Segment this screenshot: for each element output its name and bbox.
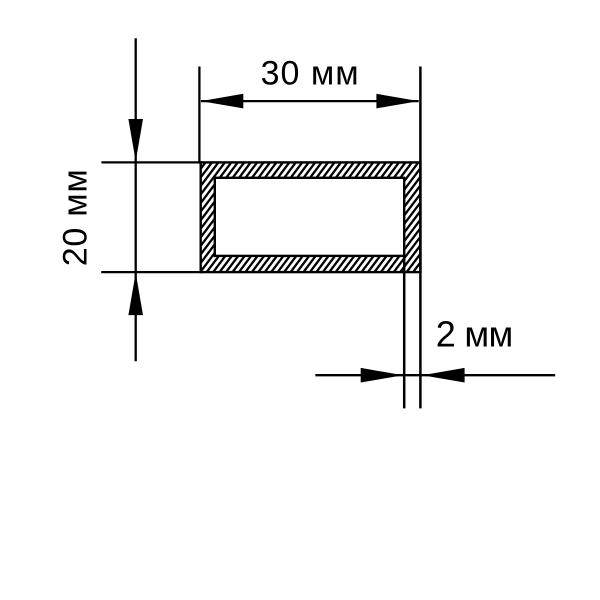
wire top dimension line 30mm bbox=[201, 100, 419, 102]
wire 2mm dimension line bbox=[315, 374, 555, 376]
svg-text:2 мм: 2 мм bbox=[436, 313, 514, 354]
node outer profile rectangle bbox=[201, 162, 421, 272]
wire extension line top of left dimension bbox=[101, 161, 202, 163]
arrowhead right-pointing of 2mm bbox=[361, 368, 403, 383]
node inner profile rectangle bbox=[215, 178, 404, 256]
arrowhead left-pointing of 2mm bbox=[422, 368, 464, 383]
svg-text:30 мм: 30 мм bbox=[261, 55, 359, 93]
arrowhead left of 30mm bbox=[201, 94, 243, 109]
wire extension line bottom of left dimension bbox=[101, 271, 202, 273]
wire left dimension line 20mm bbox=[135, 38, 137, 361]
svg-text:20 мм: 20 мм bbox=[57, 169, 95, 266]
arrowhead up of 20mm bbox=[128, 273, 143, 315]
arrowhead right of 30mm bbox=[376, 94, 418, 109]
wire extension line 2mm inner bbox=[403, 256, 406, 409]
wire extension line left of top dimension bbox=[198, 67, 200, 164]
wire hatch fill of tube wall bbox=[99, 156, 520, 278]
wire extension line right (full height, also 2mm outer) bbox=[419, 67, 422, 409]
arrowhead down of 20mm bbox=[128, 119, 143, 161]
